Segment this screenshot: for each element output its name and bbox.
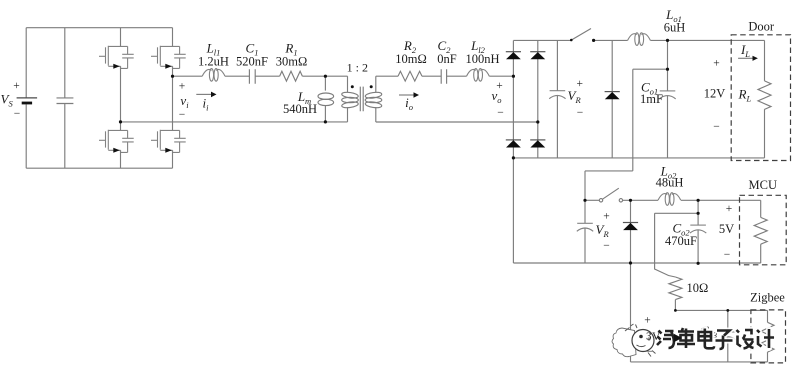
transistor Q1 — [99, 46, 134, 69]
svg-text:MCU: MCU — [749, 178, 777, 192]
wire: ground drop stage2 to stage3 — [630, 263, 632, 362]
svg-text:−: − — [713, 121, 720, 133]
arrow io head — [414, 92, 420, 98]
capacitor Co1 branch wire — [667, 40, 669, 157]
watermark cursor triangle — [674, 334, 682, 342]
svg-text:5V: 5V — [719, 222, 734, 236]
svg-text:−: − — [14, 108, 21, 120]
node: rectifier left leg input — [512, 75, 515, 78]
svg-text:V: V — [652, 331, 661, 343]
wire: Ll2 to rectifier — [489, 75, 513, 77]
svg-text:1.2uH: 1.2uH — [198, 55, 229, 69]
node: Lm top junction — [324, 75, 327, 78]
diode D3 — [506, 140, 521, 148]
node: leg2 output junction — [171, 75, 174, 78]
node: 5V tap junction — [697, 212, 700, 215]
wire: stage2 bottom rail — [513, 262, 760, 264]
box Door — [731, 35, 790, 161]
resistor R10 zigzag — [669, 277, 682, 300]
wire: bridge output upper to Ll1 — [173, 75, 203, 77]
svg-text:−: − — [577, 107, 584, 119]
svg-text:0nF: 0nF — [437, 52, 457, 66]
svg-text:VR: VR — [568, 88, 582, 105]
diode D5 branch wire — [611, 40, 613, 157]
capacitor VR1 branch — [556, 40, 558, 157]
wire: leg2 source stub — [172, 150, 174, 168]
svg-text:12V: 12V — [704, 87, 726, 101]
battery VS plates — [17, 97, 37, 99]
watermark logo — [612, 324, 656, 357]
wire: 12V tap to stage2 — [585, 69, 668, 200]
node: stage3 rail junction — [674, 309, 677, 312]
diode D4 — [530, 140, 545, 148]
wire: leg1 source stub — [120, 150, 122, 168]
wire: 10ohm bottom to stage3 rail — [674, 300, 676, 311]
svg-text:1 : 2: 1 : 2 — [347, 61, 368, 75]
wire: input bridge top rail — [26, 27, 172, 29]
transformer T1 primary lead top — [347, 76, 349, 92]
switch S2 blade — [602, 188, 619, 199]
transistor Q4 — [151, 130, 186, 153]
transistor Q2 — [151, 46, 186, 69]
wire: leg2 midpoint — [172, 66, 174, 130]
svg-text:−: − — [497, 107, 504, 119]
wire: stage3 top rail — [675, 309, 767, 311]
node: Co3 top junction — [726, 309, 729, 312]
wire: secondary top to R2 — [376, 75, 398, 77]
svg-text:+: + — [179, 81, 186, 93]
svg-text:540nH: 540nH — [283, 102, 317, 116]
wire: stage1 bottom rail — [513, 157, 764, 159]
svg-text:−: − — [603, 240, 610, 252]
svg-text:+: + — [603, 211, 610, 223]
diode D2 — [530, 52, 545, 60]
svg-text:RL: RL — [738, 87, 752, 104]
wire: rectifier left leg — [512, 41, 514, 158]
svg-text:30mΩ: 30mΩ — [276, 55, 308, 69]
svg-text:IL: IL — [740, 42, 750, 59]
svg-text:470uF: 470uF — [665, 234, 697, 248]
wire: bridge output lower (node B) — [121, 121, 348, 123]
resistor Rmcu zigzag — [754, 217, 767, 244]
node: transformer secondary dot — [370, 85, 373, 88]
svg-text:−: − — [179, 109, 186, 121]
transistor Q3 — [99, 130, 134, 153]
node: Co2 bottom junction — [697, 262, 700, 265]
switch S2 pivot circle — [599, 199, 602, 202]
wire: MCU resistor branch top — [760, 200, 762, 217]
arrow io shaft — [399, 94, 414, 96]
arrow IL head — [753, 56, 758, 61]
svg-text:−: − — [724, 249, 731, 261]
transformer T1 secondary lead bottom — [375, 107, 377, 122]
diode D1 — [506, 52, 521, 60]
node: Lm bottom junction — [324, 120, 327, 123]
wire: rectifier top rail to switch — [513, 39, 570, 41]
svg-text:Zigbee: Zigbee — [750, 291, 785, 305]
svg-text:520nF: 520nF — [236, 55, 268, 69]
svg-text:ii: ii — [203, 96, 210, 113]
box MCU — [740, 195, 787, 264]
box Zigbee — [751, 310, 786, 363]
node: 12V tap junction — [666, 68, 669, 71]
node: VR2 top junction — [583, 199, 586, 202]
wire: Zigbee resistor branch bottom — [767, 352, 769, 362]
wire: stage3 bottom rail — [631, 361, 768, 363]
wire: top rail after switch S1 — [594, 39, 628, 41]
wire: input cap branch — [64, 28, 66, 169]
node: switch S1 pivot — [570, 39, 573, 42]
wire: input bridge bottom rail — [26, 167, 172, 169]
svg-text:100nH: 100nH — [465, 52, 499, 66]
resistor R2 zigzag — [398, 71, 422, 81]
svg-text:10mΩ: 10mΩ — [395, 52, 427, 66]
switch S2 contact circle — [619, 199, 622, 202]
svg-text:48uH: 48uH — [656, 176, 684, 190]
node: stage1 ground junction — [512, 156, 515, 159]
wire: leg2 drain stub — [172, 28, 174, 47]
svg-text:10Ω: 10Ω — [687, 281, 709, 295]
watermark text: qiche dianzi sheji — [657, 328, 774, 349]
wire: leg1 midpoint — [120, 66, 122, 130]
capacitor Co3 branch wire — [727, 310, 729, 362]
wire: R2 to C2 — [422, 75, 441, 77]
inductor Lo1 — [628, 33, 651, 46]
node: rectifier right leg input — [536, 120, 539, 123]
watermark text halo — [657, 328, 774, 349]
capacitor C2 plates — [441, 69, 446, 84]
wire: secondary bottom line to rectifier — [376, 121, 538, 123]
capacitor C1 plates — [249, 69, 255, 84]
svg-text:3: 3 — [646, 331, 652, 343]
arrow ii head — [211, 92, 217, 98]
capacitor VR2 branch — [584, 200, 586, 263]
capacitor Co1 symbol — [659, 91, 675, 99]
inductor Ll2 — [467, 69, 490, 82]
capacitor VR2 symbol — [577, 223, 593, 231]
wire: Ll1 to C1 — [225, 75, 249, 77]
diode D6 — [623, 223, 638, 231]
transformer T1 core — [360, 87, 363, 112]
wire: left rail above battery — [25, 28, 27, 98]
wire: C2 to Ll2 — [447, 75, 467, 77]
wire: C1 to R1 — [255, 75, 279, 77]
svg-text:+: + — [577, 78, 584, 90]
inductor Ll1 — [202, 69, 225, 82]
svg-text:6uH: 6uH — [664, 21, 686, 35]
node: switch S1 contact — [592, 39, 595, 42]
inductor Lo2 — [658, 193, 681, 206]
svg-text:+: + — [644, 315, 651, 327]
capacitor Co2 branch wire — [697, 200, 699, 263]
switch S1 blade — [571, 29, 591, 41]
wire: 5V tap toward 10ohm — [655, 213, 699, 277]
node: transformer primary dot — [351, 85, 354, 88]
capacitor Co2 symbol — [690, 225, 706, 233]
wire: stage2 top rail left — [585, 199, 599, 201]
svg-text:io: io — [405, 95, 413, 112]
resistor Rzig zigzag — [761, 322, 774, 352]
capacitor Cin plates — [57, 98, 74, 104]
svg-text:VR: VR — [596, 222, 610, 239]
svg-text:−: − — [646, 346, 653, 358]
wire: stage2 top rail right — [681, 199, 761, 201]
wire: R1 to transformer primary — [302, 75, 347, 77]
diode D6 branch wire — [630, 200, 632, 263]
inductor Lm magnetizing branch — [324, 76, 326, 90]
svg-text:+: + — [13, 80, 20, 92]
node: D6 bottom junction — [629, 261, 632, 264]
wire: top rail Lo1 to RL corner — [650, 39, 764, 41]
transformer T1 secondary winding — [365, 91, 382, 99]
node: Co1 top junction — [666, 39, 669, 42]
wire: MCU resistor branch bottom — [760, 244, 762, 263]
resistor RL zigzag — [758, 81, 771, 109]
arrow ii shaft — [196, 93, 211, 95]
wire: RL branch bottom — [764, 109, 766, 158]
arrow IL shaft — [738, 57, 752, 59]
node: Co2 top junction — [697, 199, 700, 202]
transformer T1 primary winding — [341, 91, 358, 99]
svg-text:vi: vi — [180, 93, 189, 110]
transformer T1 secondary lead top — [375, 76, 377, 92]
capacitor VR1 symbol — [549, 91, 565, 99]
wire: stage2 top rail mid — [623, 199, 658, 201]
wire: RL branch top — [764, 40, 766, 81]
svg-text:Door: Door — [748, 20, 775, 34]
resistor R1 zigzag — [280, 71, 303, 81]
node: D6 top junction — [629, 199, 632, 202]
capacitor Co3 symbol — [720, 332, 736, 340]
wire: rectifier right leg — [537, 41, 539, 158]
svg-text:+: + — [713, 58, 720, 70]
transformer T1 primary lead bottom — [347, 107, 349, 122]
wire: leg1 drain stub — [120, 28, 122, 47]
svg-text:1mF: 1mF — [640, 92, 663, 106]
wire: Zigbee resistor branch top — [767, 310, 769, 322]
svg-text:+: + — [726, 203, 733, 215]
wire: stage1 ground drop to stage2 — [512, 158, 514, 263]
node: leg1 output junction — [119, 120, 122, 123]
svg-text:VS: VS — [1, 92, 14, 109]
diode D5 — [605, 92, 620, 100]
wire: left rail below battery — [25, 104, 27, 168]
